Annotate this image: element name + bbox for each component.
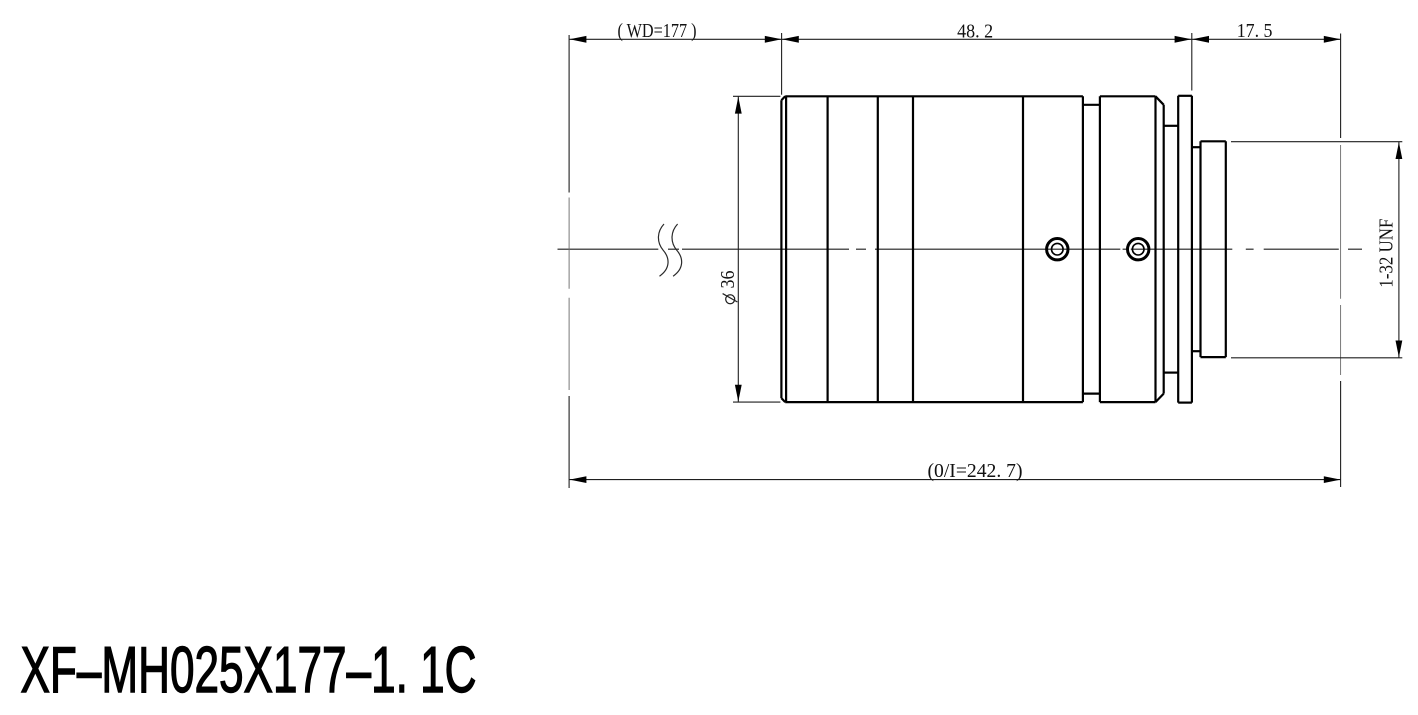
set screw 1: [1047, 239, 1068, 260]
diameter symbol of phi36: [723, 294, 738, 304]
barrel bottom edge: [1201, 356, 1226, 358]
flange bottom edge: [1178, 402, 1192, 404]
svg-text:1-32 UNF: 1-32 UNF: [1376, 218, 1397, 287]
cap top chamfer: [1156, 96, 1164, 105]
ring right wall: [1154, 96, 1156, 402]
break squiggle: [658, 224, 681, 276]
body top edge: [785, 95, 1083, 97]
body bottom edge: [785, 401, 1083, 403]
groove left wall: [1082, 96, 1084, 402]
svg-text:( WD=177 ): ( WD=177 ): [618, 21, 697, 42]
extension line right faint middle: [1340, 145, 1342, 375]
cap right wall: [1163, 105, 1165, 394]
extension line left (WD): [568, 35, 570, 488]
groove top floor: [1083, 104, 1100, 106]
groove bottom floor: [1083, 393, 1100, 395]
barrel right wall: [1225, 141, 1227, 357]
phi36 extension bottom: [733, 401, 780, 403]
front bottom chamfer: [781, 398, 785, 402]
top dimension line: [569, 38, 1341, 40]
flange right wall: [1191, 96, 1193, 403]
divider 2: [877, 96, 879, 402]
arrow 48.2 right: [1175, 36, 1192, 43]
svg-text:XF–MH025X177–1. 1C: XF–MH025X177–1. 1C: [21, 633, 477, 706]
arrow WD right: [765, 36, 782, 43]
UNF extension bottom: [1231, 357, 1402, 359]
groove right wall: [1099, 96, 1101, 402]
UNF dimension line: [1398, 142, 1400, 358]
spacer ring top edge: [1164, 125, 1179, 127]
arrow OI right: [1324, 476, 1341, 483]
small ring bottom edge: [1192, 350, 1201, 352]
cap bottom chamfer: [1156, 394, 1164, 403]
arrows: [570, 36, 1403, 483]
divider 4: [1022, 96, 1024, 402]
spacer ring bottom edge: [1164, 372, 1179, 374]
arrow phi36 bottom: [735, 385, 742, 402]
divider 1: [826, 96, 828, 402]
svg-text:(0/I=242. 7): (0/I=242. 7): [928, 461, 1023, 482]
arrow phi36 top: [735, 97, 742, 114]
barrel left wall: [1199, 141, 1201, 357]
arrow 48.2 left: [782, 36, 799, 43]
flange left wall: [1177, 96, 1179, 403]
ring top edge: [1100, 95, 1156, 97]
svg-text:17. 5: 17. 5: [1237, 21, 1273, 42]
barrel top edge: [1201, 140, 1226, 142]
arrow 17.5 right: [1324, 36, 1341, 43]
svg-text:36: 36: [718, 270, 739, 288]
svg-text:48. 2: 48. 2: [957, 22, 993, 43]
phi36 extension top: [733, 95, 780, 97]
flange top edge: [1178, 95, 1192, 97]
front face inner line: [785, 96, 787, 402]
bottom dimension line: [569, 479, 1341, 481]
centerline: [558, 248, 1363, 250]
arrow OI left: [570, 476, 587, 483]
front face outer line: [780, 100, 782, 398]
extension line flange: [1191, 33, 1193, 91]
arrow WD left: [570, 36, 587, 43]
phi36 dimension line: [737, 96, 739, 402]
extension line front face: [781, 33, 783, 95]
arrow 17.5 left: [1192, 36, 1209, 43]
small ring top edge: [1192, 146, 1201, 148]
front top chamfer: [781, 96, 785, 100]
ring bottom edge: [1100, 401, 1156, 403]
arrow UNF bottom: [1396, 341, 1403, 358]
UNF extension top: [1231, 141, 1402, 143]
extension line right: [1340, 34, 1342, 488]
lens body outline: [781, 96, 1225, 403]
set screw 2: [1128, 239, 1149, 260]
divider 3: [912, 96, 914, 402]
extension line left faint middle: [568, 198, 570, 391]
arrow UNF top: [1396, 142, 1403, 159]
